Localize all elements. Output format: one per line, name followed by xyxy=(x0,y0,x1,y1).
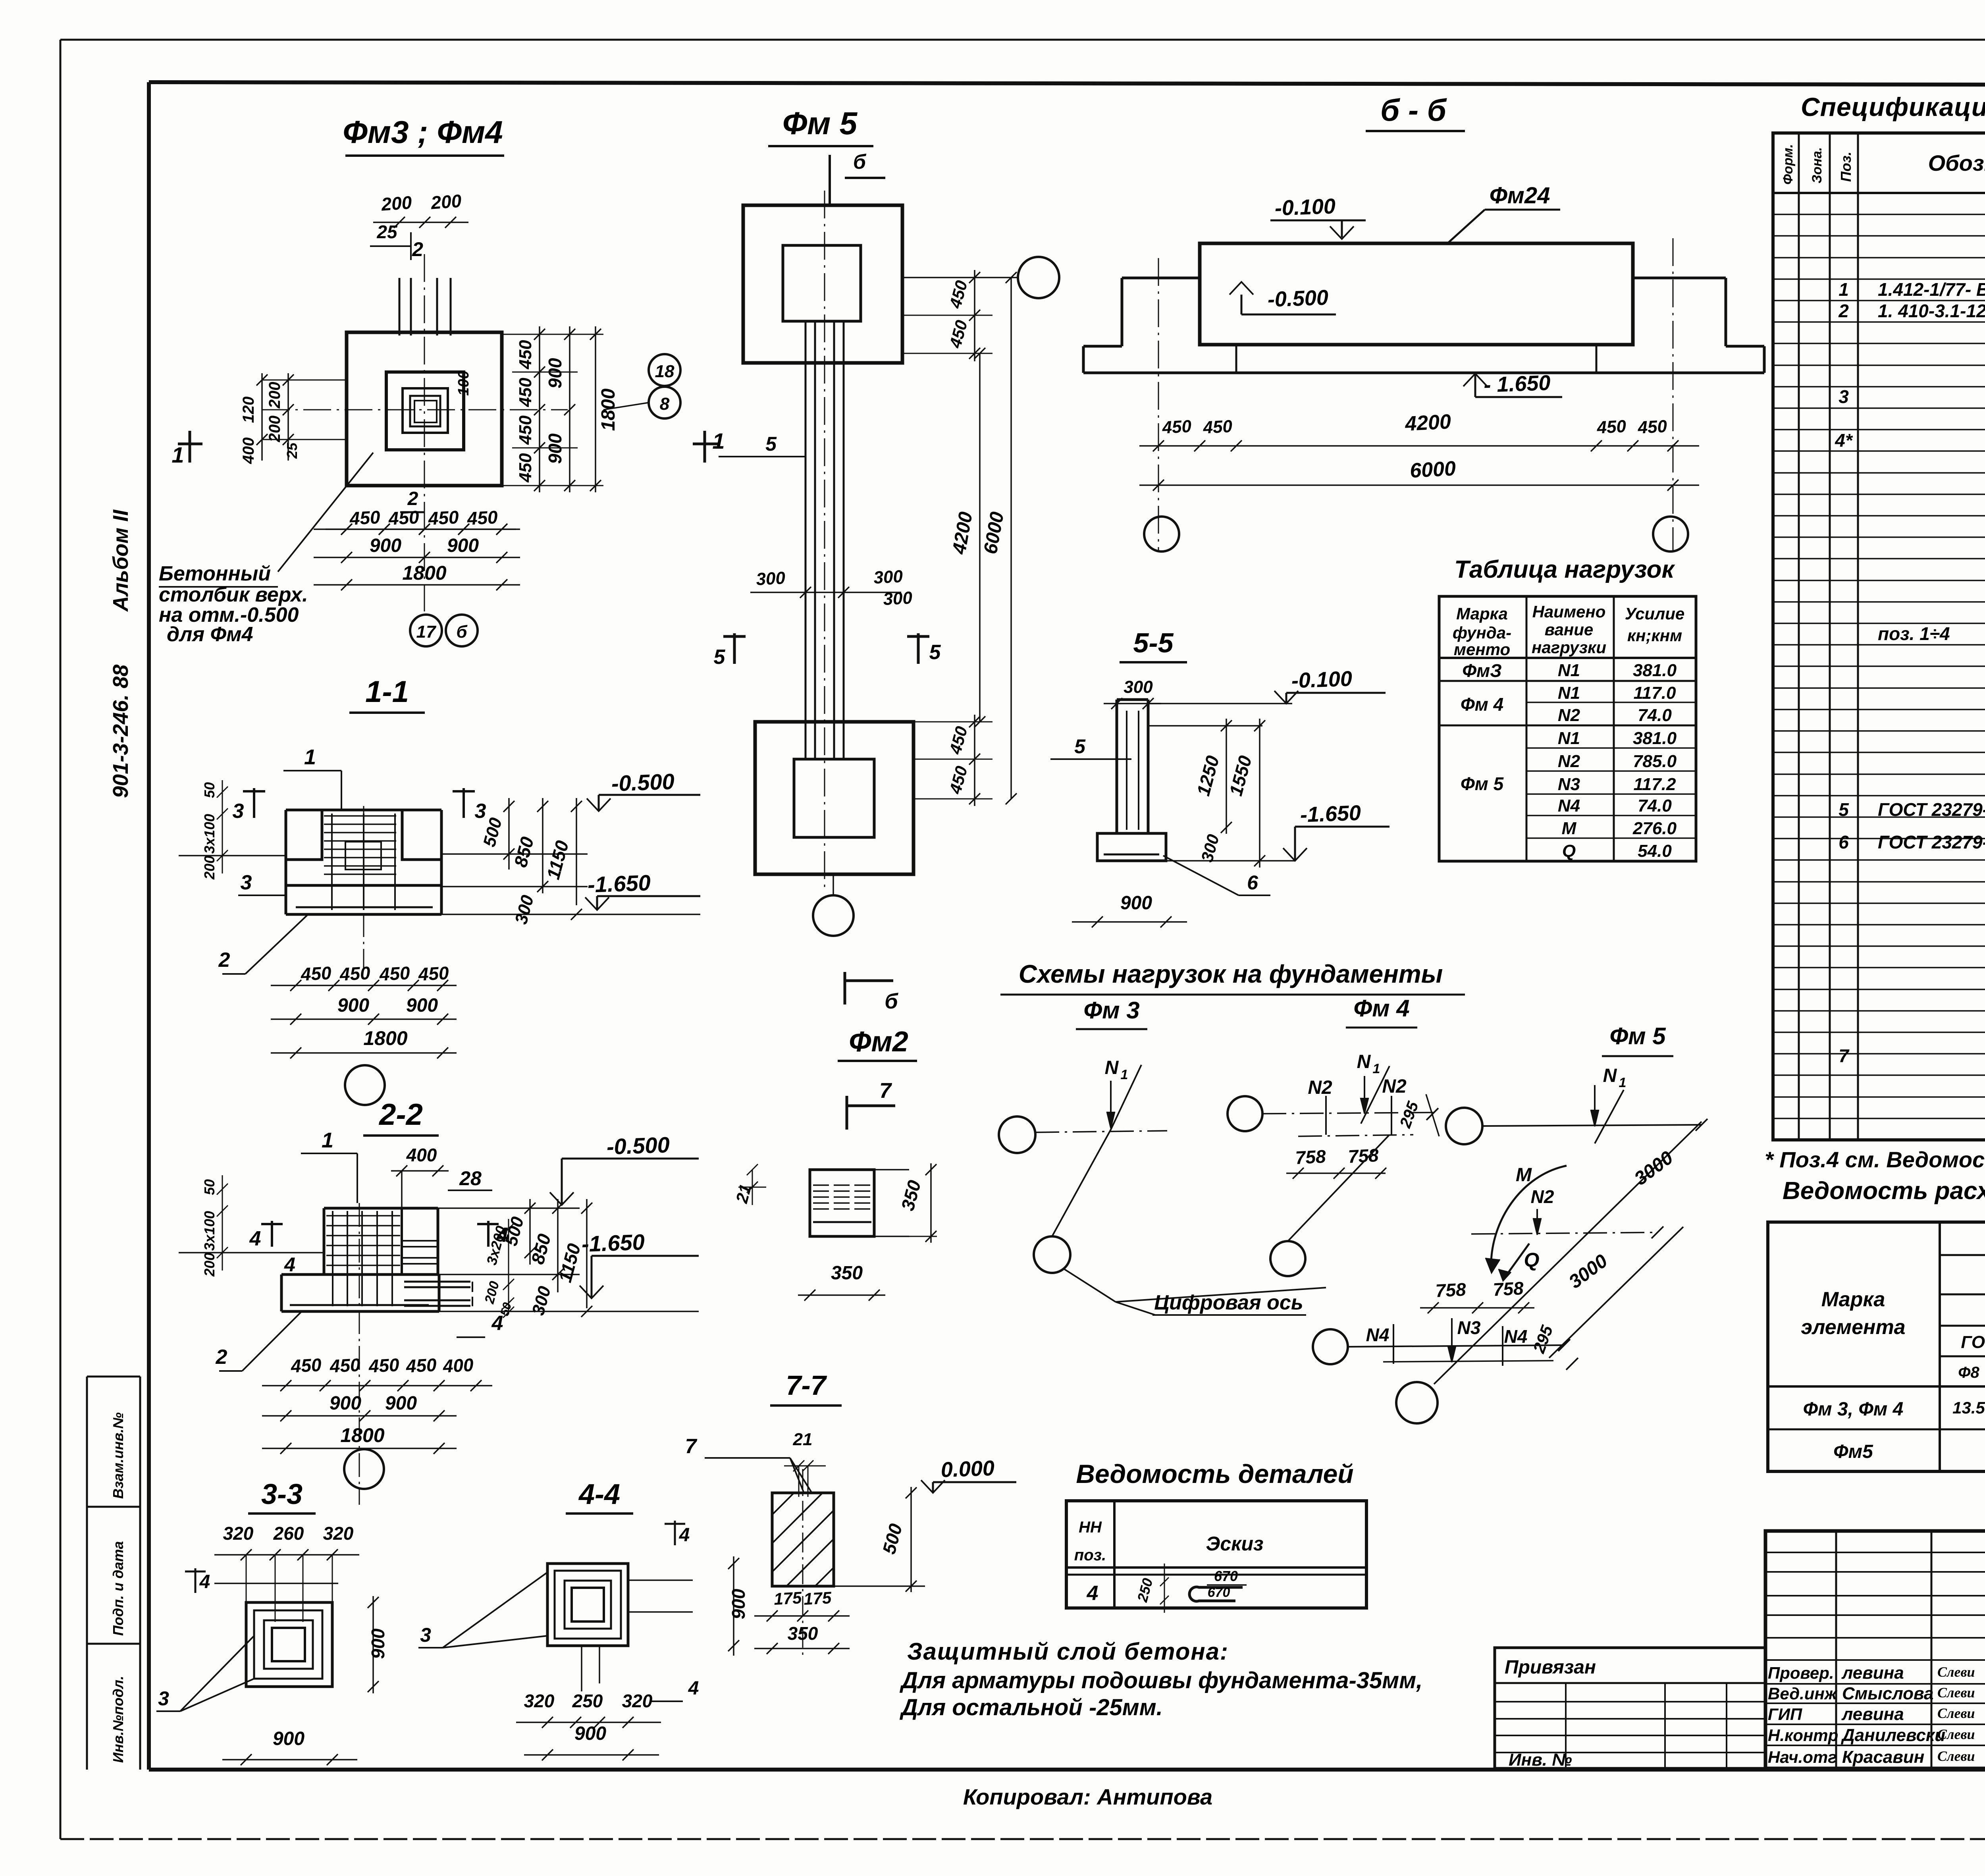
section 5-5 column xyxy=(1116,700,1118,833)
svg-text:1: 1 xyxy=(1373,1061,1380,1076)
svg-text:-1.650: -1.650 xyxy=(587,870,651,897)
svg-text:1800: 1800 xyxy=(402,562,446,584)
svg-text:450: 450 xyxy=(427,507,459,529)
svg-text:2: 2 xyxy=(407,488,418,509)
svg-text:N4: N4 xyxy=(1558,796,1580,816)
svg-text:50: 50 xyxy=(201,782,218,798)
svg-text:Эскиз: Эскиз xyxy=(1206,1533,1263,1555)
svg-text:Схемы нагрузок на фундаменты: Схемы нагрузок на фундаменты xyxy=(1019,960,1443,988)
svg-text:350: 350 xyxy=(831,1263,863,1284)
svg-text:-0.100: -0.100 xyxy=(1274,194,1336,220)
svg-text:3: 3 xyxy=(241,871,252,894)
section 1-1 axis xyxy=(363,806,364,969)
svg-text:2-2: 2-2 xyxy=(378,1098,423,1132)
svg-text:450: 450 xyxy=(516,453,535,483)
svg-text:N2: N2 xyxy=(1382,1076,1407,1097)
svg-text:1: 1 xyxy=(712,428,725,453)
section 2-2 outline xyxy=(324,1207,438,1210)
axis circles 17 and b xyxy=(410,615,442,646)
svg-text:300: 300 xyxy=(755,568,786,589)
svg-text:1: 1 xyxy=(322,1128,333,1152)
svg-text:N1: N1 xyxy=(1558,661,1580,680)
detail 7-7 dim 500 xyxy=(834,1585,925,1587)
svg-text:ГИП: ГИП xyxy=(1768,1705,1802,1724)
svg-text:450: 450 xyxy=(1202,416,1233,438)
svg-text:200: 200 xyxy=(266,382,283,409)
svg-text:74.0: 74.0 xyxy=(1638,796,1672,816)
plan outer square xyxy=(347,332,502,486)
svg-text:Фм 3: Фм 3 xyxy=(1083,997,1139,1024)
svg-text:N3: N3 xyxy=(1457,1317,1481,1338)
left margin bottom boxes xyxy=(86,1377,88,1770)
svg-text:Фм 5: Фм 5 xyxy=(1609,1023,1666,1049)
svg-text:-0.500: -0.500 xyxy=(611,769,675,796)
svg-text:5: 5 xyxy=(765,433,777,455)
svg-text:117.0: 117.0 xyxy=(1634,683,1676,703)
svg-text:-1.650: -1.650 xyxy=(1300,801,1361,827)
svg-text:Красавин: Красавин xyxy=(1842,1747,1924,1767)
section 2-2 right connect bars xyxy=(402,1240,438,1242)
svg-text:250: 250 xyxy=(572,1691,603,1711)
section 2-2 marks 4 xyxy=(271,1221,273,1247)
B-B axis circles xyxy=(1144,517,1179,551)
hook sketch xyxy=(1189,1587,1243,1601)
section 1-1 leader 1 xyxy=(283,770,341,771)
svg-text:-1.650: -1.650 xyxy=(581,1229,645,1257)
scheme Fm5 M arc xyxy=(1491,1166,1567,1269)
svg-text:Нач.отг: Нач.отг xyxy=(1768,1748,1837,1766)
svg-text:450: 450 xyxy=(387,507,420,529)
7 cut mark xyxy=(846,1096,848,1130)
svg-text:175: 175 xyxy=(773,1588,802,1608)
svg-text:Форм.: Форм. xyxy=(1781,144,1796,185)
axis circles 18 and 8 xyxy=(649,354,680,386)
main drawing border xyxy=(149,82,1985,85)
svg-text:N: N xyxy=(1603,1065,1617,1086)
svg-text:18: 18 xyxy=(655,362,675,381)
Fm5 axis circles xyxy=(902,277,1018,278)
svg-text:450: 450 xyxy=(290,1354,322,1377)
svg-text:Марка: Марка xyxy=(1821,1288,1885,1311)
svg-text:N: N xyxy=(1105,1057,1119,1078)
svg-text:175: 175 xyxy=(803,1588,832,1608)
svg-text:100: 100 xyxy=(455,370,472,395)
svg-text:Фм3 ; Фм4: Фм3 ; Фм4 xyxy=(343,114,503,150)
svg-text:Слеви: Слеви xyxy=(1937,1664,1975,1680)
B-B base line xyxy=(1083,372,1764,374)
svg-text:900: 900 xyxy=(728,1589,749,1619)
svg-text:Фм5: Фм5 xyxy=(1833,1441,1873,1462)
svg-text:450: 450 xyxy=(1161,416,1192,438)
svg-text:7: 7 xyxy=(879,1079,892,1103)
svg-text:200: 200 xyxy=(201,856,218,880)
svg-text:Альбом II: Альбом II xyxy=(109,509,133,612)
section 2-2 leader 1 xyxy=(301,1153,357,1154)
svg-text:ГОСТ 23279-85: ГОСТ 23279-85 xyxy=(1878,799,1985,820)
svg-text:758: 758 xyxy=(1492,1278,1524,1300)
section 2-2 left helper dims xyxy=(222,1175,223,1271)
svg-text:381.0: 381.0 xyxy=(1633,729,1677,748)
svg-text:Копировал: Антипова: Копировал: Антипова xyxy=(963,1784,1212,1809)
svg-text:900: 900 xyxy=(1120,893,1152,914)
section 5-5 right dims 1250 1550 xyxy=(1148,725,1262,727)
Fm5 b section mark top xyxy=(829,155,831,206)
Fm5 leader 5 xyxy=(719,456,806,457)
section 1-1 left helper dims xyxy=(222,780,223,873)
svg-text:Для арматуры подошвы фундаме: Для арматуры подошвы фундамента-35мм, xyxy=(899,1668,1422,1693)
svg-text:Спецификация монолитных фунд: Спецификация монолитных фундаментов Фм2÷… xyxy=(1801,92,1985,121)
svg-text:670: 670 xyxy=(1214,1568,1238,1584)
svg-text:-0.500: -0.500 xyxy=(606,1132,670,1159)
svg-text:900: 900 xyxy=(370,535,401,556)
svg-text:4: 4 xyxy=(284,1253,295,1276)
svg-text:Фм 4: Фм 4 xyxy=(1461,694,1503,715)
section 2-2 rebar mesh xyxy=(332,1211,333,1306)
svg-text:276.0: 276.0 xyxy=(1632,819,1677,838)
svg-text:5-5: 5-5 xyxy=(1133,627,1174,658)
svg-text:1: 1 xyxy=(172,442,184,467)
svg-text:6: 6 xyxy=(1247,871,1258,894)
svg-text:N3: N3 xyxy=(1558,775,1580,794)
svg-text:Цифровая ось: Цифровая ось xyxy=(1154,1291,1303,1314)
svg-text:2: 2 xyxy=(1838,301,1849,321)
svg-text:758: 758 xyxy=(1347,1145,1379,1167)
svg-text:21: 21 xyxy=(793,1430,813,1449)
svg-text:б - б: б - б xyxy=(1380,93,1447,127)
Fm5 top cap xyxy=(743,205,902,363)
svg-text:N4: N4 xyxy=(1366,1325,1389,1345)
outer sheet frame xyxy=(60,39,1985,41)
svg-text:3x100: 3x100 xyxy=(201,814,218,854)
svg-text:758: 758 xyxy=(1435,1279,1467,1301)
svg-text:Привязан: Привязан xyxy=(1505,1657,1596,1678)
svg-text:900: 900 xyxy=(447,535,479,556)
svg-text:левина: левина xyxy=(1841,1663,1904,1683)
svg-text:670: 670 xyxy=(1208,1585,1230,1600)
svg-text:Наимено: Наимено xyxy=(1532,602,1606,621)
svg-text:320: 320 xyxy=(524,1691,555,1711)
svg-text:* Поз.4 см. Ведомость детал: * Поз.4 см. Ведомость деталей xyxy=(1765,1147,1985,1172)
svg-text:3: 3 xyxy=(475,800,486,823)
svg-text:117.2: 117.2 xyxy=(1634,775,1676,794)
svg-text:2: 2 xyxy=(412,238,423,260)
svg-text:450: 450 xyxy=(1596,416,1627,438)
svg-text:3: 3 xyxy=(420,1624,431,1646)
svg-text:120: 120 xyxy=(240,397,257,423)
svg-text:200: 200 xyxy=(201,1253,218,1277)
svg-text:2: 2 xyxy=(216,1346,227,1369)
svg-text:Слеви: Слеви xyxy=(1937,1685,1975,1701)
svg-text:для Фм4: для Фм4 xyxy=(167,623,253,646)
svg-text:0.000: 0.000 xyxy=(940,1456,995,1482)
svg-text:450: 450 xyxy=(378,962,410,985)
svg-text:5: 5 xyxy=(929,641,941,664)
plan axes xyxy=(262,409,568,411)
svg-text:Вед.инж: Вед.инж xyxy=(1768,1684,1838,1703)
svg-text:Фм24: Фм24 xyxy=(1490,183,1550,208)
svg-text:N2: N2 xyxy=(1558,752,1580,771)
svg-text:5: 5 xyxy=(714,646,726,669)
svg-text:758: 758 xyxy=(1295,1146,1326,1168)
svg-text:1.412-1/77- В.3- 040: 1.412-1/77- В.3- 040 xyxy=(1878,279,1985,300)
svg-text:N2: N2 xyxy=(1308,1077,1332,1098)
svg-text:900: 900 xyxy=(406,995,438,1016)
svg-text:-0.500: -0.500 xyxy=(1267,285,1329,311)
svg-text:Усилие: Усилие xyxy=(1625,604,1685,623)
svg-text:4200: 4200 xyxy=(1404,410,1452,436)
svg-text:ГОСТ 5781-82: ГОСТ 5781-82 xyxy=(1961,1332,1985,1352)
svg-text:N4: N4 xyxy=(1504,1326,1528,1347)
Fm5 right bottom dims 450 450 xyxy=(913,759,992,760)
svg-text:Марка: Марка xyxy=(1456,604,1508,623)
svg-text:4*: 4* xyxy=(1835,430,1853,451)
svg-text:Бетонный: Бетонный xyxy=(159,562,271,585)
plan right dim chains xyxy=(539,326,540,492)
svg-text:350: 350 xyxy=(788,1623,818,1644)
detail 4-4 right dim 900 xyxy=(733,1556,734,1656)
svg-text:13.5: 13.5 xyxy=(1952,1398,1985,1417)
svg-text:900: 900 xyxy=(574,1723,606,1744)
title block frame xyxy=(1765,1531,1985,1768)
svg-text:4: 4 xyxy=(249,1227,261,1250)
load table xyxy=(1439,596,1696,861)
svg-text:54.0: 54.0 xyxy=(1638,841,1672,861)
svg-text:менто: менто xyxy=(1454,640,1510,659)
section 2-2 leader 2 xyxy=(242,1311,302,1371)
detail 7-7 axis xyxy=(802,1469,804,1656)
svg-text:320: 320 xyxy=(323,1523,354,1544)
svg-text:300: 300 xyxy=(1124,677,1153,697)
svg-text:7: 7 xyxy=(1839,1045,1850,1066)
svg-text:поз. 1÷4: поз. 1÷4 xyxy=(1878,623,1950,644)
svg-text:900: 900 xyxy=(330,1393,361,1414)
section 2-2 axis circle xyxy=(344,1449,384,1489)
section marks 1-1 xyxy=(178,443,202,445)
svg-text:б: б xyxy=(456,622,468,642)
svg-text:3: 3 xyxy=(158,1687,169,1710)
svg-text:Фм2: Фм2 xyxy=(849,1026,908,1058)
svg-text:450: 450 xyxy=(368,1354,400,1377)
svg-text:6000: 6000 xyxy=(1409,457,1457,482)
detail 4-4 leader 3 xyxy=(418,1647,443,1648)
svg-text:25: 25 xyxy=(284,442,300,459)
plan bottom dims xyxy=(400,511,424,513)
svg-text:Подп. и дата: Подп. и дата xyxy=(110,1541,126,1636)
scheme Fm5 diagonals xyxy=(1434,1122,1702,1384)
svg-text:381.0: 381.0 xyxy=(1633,661,1677,680)
section 1-1 rebar mesh xyxy=(331,814,333,910)
svg-text:450: 450 xyxy=(1637,416,1667,438)
plan left dim chains xyxy=(287,373,289,461)
detail 7-7 hatched column xyxy=(772,1493,834,1586)
Fm5 right top dims 450 450 xyxy=(902,315,992,316)
svg-text:Слеви: Слеви xyxy=(1937,1748,1975,1764)
svg-text:2: 2 xyxy=(218,949,230,972)
svg-text:б: б xyxy=(885,989,898,1013)
section 5-5 leader 5 xyxy=(1050,758,1131,760)
svg-text:кн;кнм: кн;кнм xyxy=(1627,626,1682,645)
B-B left support xyxy=(1122,277,1200,280)
svg-text:900: 900 xyxy=(545,433,565,464)
svg-text:3: 3 xyxy=(1839,386,1849,407)
svg-text:N2: N2 xyxy=(1558,706,1580,725)
svg-text:450: 450 xyxy=(516,378,535,407)
Fm2 plan xyxy=(810,1170,874,1236)
svg-text:Инв.№подл.: Инв.№подл. xyxy=(110,1676,126,1763)
svg-text:300: 300 xyxy=(873,567,903,588)
b cut mark under Fm5 xyxy=(844,972,846,1005)
plan middle square xyxy=(386,372,464,450)
svg-text:Для остальной -25мм.: Для остальной -25мм. xyxy=(899,1695,1163,1720)
svg-text:28: 28 xyxy=(459,1167,482,1190)
Fm5 column bars xyxy=(805,321,807,759)
svg-text:Ф8: Ф8 xyxy=(1958,1364,1979,1381)
svg-text:300: 300 xyxy=(883,588,913,609)
section 2-2 right dims xyxy=(438,1207,580,1209)
section 1-1 axis circle xyxy=(345,1065,385,1105)
section 5-5 footing xyxy=(1097,833,1166,861)
detail 3-3 leader 3 xyxy=(156,1710,180,1712)
section 5-5 leader 6 xyxy=(1163,856,1239,895)
svg-text:3x100: 3x100 xyxy=(201,1211,218,1251)
svg-text:4: 4 xyxy=(688,1678,699,1699)
svg-text:Зона.: Зона. xyxy=(1810,147,1825,183)
svg-text:Ведомость расхода стали на оди: Ведомость расхода стали на один элемент,… xyxy=(1783,1177,1985,1205)
section 1-1 outline xyxy=(286,809,441,812)
svg-text:вание: вание xyxy=(1545,620,1594,639)
B-B right support xyxy=(1633,277,1726,280)
Fm5 4200 6000 dims xyxy=(979,353,981,722)
svg-text:260: 260 xyxy=(273,1523,304,1544)
svg-text:901-3-246. 88: 901-3-246. 88 xyxy=(109,665,133,798)
svg-text:1. 410-3.1-12: 1. 410-3.1-12 xyxy=(1878,301,1985,321)
svg-text:Фм 5: Фм 5 xyxy=(1461,773,1504,794)
svg-text:4: 4 xyxy=(491,1312,503,1335)
plan top protruding bars xyxy=(399,278,401,335)
svg-text:Провер.: Провер. xyxy=(1768,1664,1834,1682)
svg-text:Смыслова: Смыслова xyxy=(1842,1684,1934,1703)
svg-text:-0.100: -0.100 xyxy=(1291,667,1353,692)
svg-text:450: 450 xyxy=(516,340,535,370)
svg-text:900: 900 xyxy=(273,1728,304,1749)
svg-text:1800: 1800 xyxy=(598,388,619,431)
detail 3-3 mark 4 xyxy=(195,1568,197,1593)
svg-text:6: 6 xyxy=(1839,832,1849,852)
svg-text:900: 900 xyxy=(545,358,565,388)
section 1-1 leader 2 xyxy=(245,914,308,974)
svg-text:M: M xyxy=(1516,1165,1532,1186)
svg-text:Инв. №: Инв. № xyxy=(1509,1750,1572,1770)
svg-text:Обозначение: Обозначение xyxy=(1928,150,1985,175)
section 2-2 axis xyxy=(359,1203,360,1505)
B-B axes xyxy=(1158,258,1159,552)
svg-text:поз.: поз. xyxy=(1074,1546,1106,1564)
svg-text:Таблица нагрузок: Таблица нагрузок xyxy=(1454,556,1675,583)
svg-text:Ведомость деталей: Ведомость деталей xyxy=(1076,1459,1353,1488)
svg-text:320: 320 xyxy=(622,1691,653,1711)
svg-text:ФмЗ: ФмЗ xyxy=(1462,660,1502,681)
detail 4-4 marks 4 xyxy=(674,1521,676,1545)
svg-text:7: 7 xyxy=(685,1435,698,1458)
svg-text:5: 5 xyxy=(1074,735,1086,758)
svg-text:900: 900 xyxy=(385,1393,417,1414)
svg-text:столбик верх.: столбик верх. xyxy=(159,583,308,606)
steel table frame xyxy=(1768,1222,1985,1471)
svg-text:400: 400 xyxy=(240,438,257,465)
svg-text:900: 900 xyxy=(368,1628,388,1659)
svg-text:4: 4 xyxy=(199,1571,210,1593)
section 1-1 right dims xyxy=(441,853,588,855)
svg-text:Q: Q xyxy=(1524,1249,1540,1271)
svg-text:левина: левина xyxy=(1841,1704,1904,1724)
svg-text:5: 5 xyxy=(1839,799,1849,820)
svg-text:1-1: 1-1 xyxy=(365,675,409,709)
B-B beam xyxy=(1200,243,1633,345)
detail 3-3 right dim 900 xyxy=(372,1596,374,1693)
svg-text:450: 450 xyxy=(300,962,332,985)
svg-text:450: 450 xyxy=(516,415,535,445)
svg-text:Q: Q xyxy=(1562,841,1576,861)
svg-text:Фм 5: Фм 5 xyxy=(782,106,858,141)
svg-text:Н.контр: Н.контр xyxy=(1768,1726,1838,1745)
svg-text:Защитный слой бетона:: Защитный слой бетона: xyxy=(907,1638,1229,1665)
svg-text:нагрузки: нагрузки xyxy=(1532,638,1606,657)
svg-text:элемента: элемента xyxy=(1801,1316,1905,1339)
privyazan block xyxy=(1495,1648,1765,1768)
svg-text:ГОСТ 23279-85: ГОСТ 23279-85 xyxy=(1878,832,1985,852)
svg-text:8: 8 xyxy=(660,394,670,414)
svg-text:Слеви: Слеви xyxy=(1937,1726,1975,1742)
svg-text:200: 200 xyxy=(266,416,283,443)
spec table frame xyxy=(1773,133,1985,1140)
svg-text:N1: N1 xyxy=(1558,683,1580,703)
svg-text:Слеви: Слеви xyxy=(1937,1705,1975,1721)
svg-text:1: 1 xyxy=(1121,1067,1128,1082)
svg-text:450: 450 xyxy=(339,962,371,985)
svg-text:4: 4 xyxy=(679,1525,690,1546)
vedomost detaley table xyxy=(1066,1501,1366,1608)
svg-text:450: 450 xyxy=(405,1354,437,1377)
svg-text:17: 17 xyxy=(416,622,437,642)
svg-text:Взам.инв.№: Взам.инв.№ xyxy=(110,1412,126,1499)
svg-text:450: 450 xyxy=(466,507,498,529)
svg-text:450: 450 xyxy=(349,507,381,529)
svg-text:400: 400 xyxy=(442,1354,474,1377)
svg-text:4-4: 4-4 xyxy=(578,1479,620,1510)
plan column squares xyxy=(403,388,448,433)
svg-text:450: 450 xyxy=(417,962,449,985)
svg-text:- 1.650: - 1.650 xyxy=(1483,371,1551,397)
svg-text:Фм 4: Фм 4 xyxy=(1353,995,1409,1022)
section 1-1 marks 3 xyxy=(253,788,255,818)
svg-text:450: 450 xyxy=(329,1354,361,1377)
svg-text:320: 320 xyxy=(223,1523,254,1544)
svg-text:фунда-: фунда- xyxy=(1453,623,1511,642)
svg-text:N: N xyxy=(1357,1051,1371,1072)
svg-text:400: 400 xyxy=(406,1145,437,1165)
svg-text:б: б xyxy=(853,150,867,174)
Fm5 5-5 cut marks xyxy=(733,633,736,664)
svg-text:25: 25 xyxy=(376,222,398,242)
svg-text:НН: НН xyxy=(1079,1519,1102,1536)
svg-text:3-3: 3-3 xyxy=(261,1479,303,1510)
svg-text:N1: N1 xyxy=(1558,729,1580,748)
title block left grid xyxy=(1835,1531,1837,1768)
svg-text:3: 3 xyxy=(233,800,244,823)
detail 4-4 squares xyxy=(547,1564,628,1646)
svg-text:Поз.: Поз. xyxy=(1838,152,1854,182)
svg-text:50: 50 xyxy=(201,1179,218,1195)
